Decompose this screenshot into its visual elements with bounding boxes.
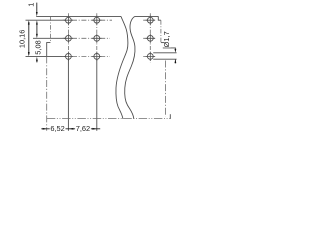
wire row1 extension line [26,19,66,21]
wire row3 extension line [26,55,66,57]
wire break S-curve left [116,16,128,118]
node row2 center line [63,37,110,39]
wire right step jog [161,42,166,44]
dimension 5,08 lower outside arrow [36,57,38,63]
label 10,16 [17,29,26,50]
wire right step [158,16,161,20]
node row3 center line right group [143,55,156,57]
hole R2C2 [92,34,101,43]
dimension 5,08 carrier line upper arrows [36,20,38,38]
wire column1 extension line [67,59,69,131]
svg-text:7,62: 7,62 [76,124,90,133]
node column1 center line [67,13,69,59]
wire column2 extension line [96,59,98,131]
node row3 center line [63,55,110,57]
node row1 center line right group [143,19,156,21]
node row1 center line [63,19,112,21]
node column2 center line [96,13,98,59]
wire left chain line upper [49,16,51,42]
node column3 center line [149,13,151,62]
dimension 10,16 line with arrows [28,20,30,56]
wire right chain line lower [165,61,167,117]
wire break S-curve right [125,16,135,118]
hole R2C3 [146,34,155,43]
hole R1C2 [92,16,101,25]
svg-text:1: 1 [26,3,35,7]
hole R3C3 [146,52,155,61]
hole R3C1 [64,52,73,61]
dimension diameter 1,7 leader and lines [153,48,176,64]
hole R2C1 [64,34,73,43]
dimension bottom line [41,128,100,130]
label 5,08 [34,39,43,55]
wire bottom horizontal chain line [47,118,171,120]
dimension 1 upper line with arrow [36,3,38,17]
svg-text:5,08: 5,08 [34,40,43,54]
hole R3C2 [92,52,101,61]
label diameter 1,7 [162,31,171,48]
wire bottom chain end hook [169,114,171,119]
wire top edge left segment [36,15,121,17]
svg-text:10,16: 10,16 [17,30,26,49]
svg-text:6,52: 6,52 [50,124,64,133]
label 7,62 [75,124,91,133]
node row2 center line right group [143,37,156,39]
hole R1C1 [64,16,73,25]
label 6,52 [50,124,66,133]
hole R1C3 [146,16,155,25]
wire right chain line upper [160,20,162,42]
wire left chain line lower [46,56,48,130]
wire left step jog [47,43,51,57]
svg-text:Ø1,7: Ø1,7 [162,31,171,47]
wire top edge right segment [135,15,159,17]
wire row2 extension line [33,37,66,39]
